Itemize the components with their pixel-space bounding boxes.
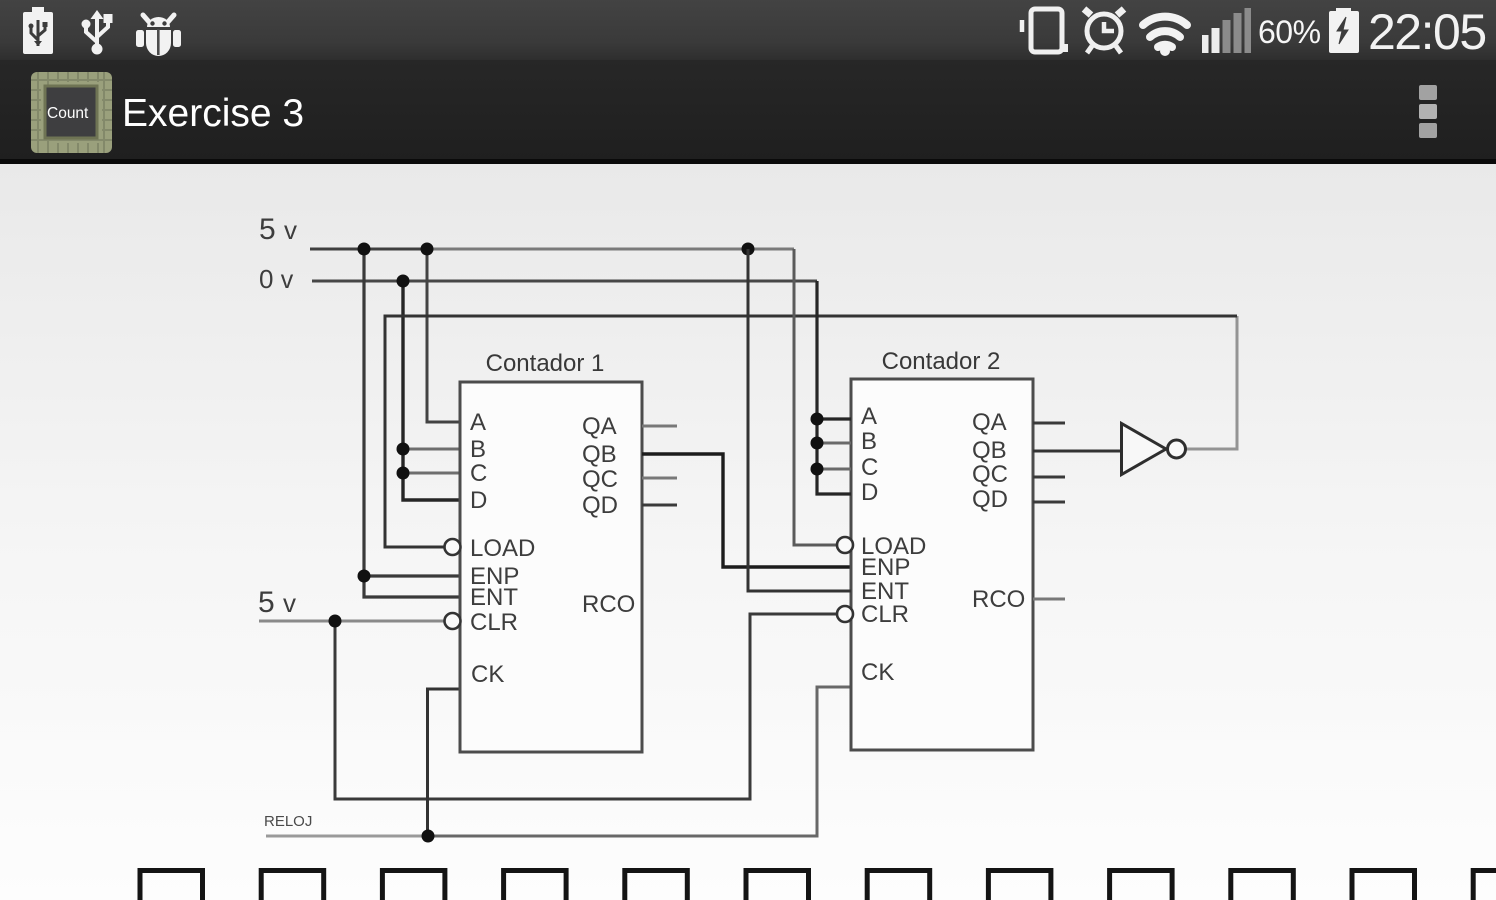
junction on 5V at A1 vertical (421, 243, 434, 256)
junction B1 (397, 443, 410, 456)
wifi status icon (1143, 17, 1187, 56)
QC2 stub (1033, 476, 1065, 479)
app launcher icon (chip) (31, 72, 112, 153)
counter U1 box (460, 382, 642, 752)
svg-text:CLR: CLR (861, 601, 909, 628)
wire CK1 to clock (428, 689, 461, 836)
wire 5V to A1 (427, 249, 460, 422)
wire 0V to C1 (403, 472, 460, 475)
svg-text:ENT: ENT (470, 584, 518, 611)
inverter U3 bubble (1168, 440, 1186, 458)
svg-text:QC: QC (972, 461, 1008, 488)
junction A2 (811, 413, 824, 426)
svg-text:D: D (861, 479, 878, 506)
inverter U3 triangle (1122, 424, 1167, 475)
overflow menu icon (1419, 85, 1437, 138)
svg-text:RCO: RCO (582, 591, 635, 618)
svg-text:0 v: 0 v (259, 264, 294, 294)
wire 0V to A2 D2 (817, 281, 851, 494)
QD2 stub (1033, 501, 1065, 504)
QA1 stub (642, 425, 677, 428)
junction C1 (397, 467, 410, 480)
wire CLR1 net to CLR2 (335, 614, 837, 799)
svg-text:5 v: 5 v (259, 213, 297, 246)
feedback wire top horizontal to LOAD1 (385, 316, 1237, 547)
junction on 5V at ENT2 vertical (742, 243, 755, 256)
feedback wire inverter output to top rail (1186, 316, 1237, 449)
svg-text:RCO: RCO (972, 586, 1025, 613)
junction on 5V at ENP1 vertical (358, 243, 371, 256)
svg-text:QB: QB (972, 437, 1007, 464)
svg-text:C: C (861, 454, 878, 481)
counter U2 box (851, 379, 1033, 750)
junction on 0V at D1 vertical (397, 275, 410, 288)
svg-text:QD: QD (972, 486, 1008, 513)
svg-text:LOAD: LOAD (470, 535, 535, 562)
svg-text:Contador 2: Contador 2 (882, 348, 1001, 375)
signal bars status icon (1202, 8, 1251, 53)
svg-text:CLR: CLR (470, 609, 518, 636)
U1 LOAD bubble (445, 539, 461, 555)
battery charging (USB) status icon (23, 7, 53, 54)
wire 0V down to D1 (403, 281, 460, 500)
wire 5V to ENP1 and ENT1 (364, 249, 460, 597)
wire 5V to LOAD2 (794, 249, 837, 545)
QD1 stub (642, 504, 677, 507)
wire QB2 to inverter input (1033, 450, 1120, 453)
svg-text:QB: QB (582, 441, 617, 468)
RCO2 stub (1033, 598, 1065, 601)
junction B2 (811, 437, 824, 450)
wire 5V source to CLR1 (259, 620, 444, 623)
svg-text:B: B (470, 436, 486, 463)
svg-text:CK: CK (471, 661, 504, 688)
svg-text:QA: QA (972, 409, 1007, 436)
svg-text:5 v: 5 v (258, 586, 296, 619)
wire 0V to B1 (403, 448, 460, 451)
alarm clock status icon (1084, 9, 1124, 53)
wire QB1 to ENP2 (642, 454, 851, 567)
stub B2 (817, 442, 851, 445)
svg-text:C: C (470, 460, 487, 487)
svg-text:QD: QD (582, 492, 618, 519)
junction C2 (811, 463, 824, 476)
QA2 stub (1033, 422, 1065, 425)
svg-text:QA: QA (582, 413, 617, 440)
stub C2 (817, 468, 851, 471)
svg-text:Contador 1: Contador 1 (486, 350, 605, 377)
junction RELOJ CK1 (422, 830, 435, 843)
svg-text:A: A (470, 409, 486, 436)
svg-text:RELOJ: RELOJ (264, 813, 312, 830)
net 0V rail (312, 280, 817, 283)
wire 5V to ENT2 (748, 249, 851, 591)
net RELOJ clock line right to CK2 (428, 687, 851, 836)
android debug bug status icon (136, 15, 181, 56)
svg-text:QC: QC (582, 466, 618, 493)
USB debug status icon (82, 10, 113, 55)
net RELOJ clock line left (266, 835, 428, 838)
svg-text:CK: CK (861, 659, 894, 686)
svg-text:B: B (861, 428, 877, 455)
U2 CLR bubble (837, 606, 853, 622)
battery level status icon (1329, 8, 1359, 53)
QC1 stub (642, 477, 677, 480)
net 5V rail (310, 248, 430, 251)
U1 CLR bubble (445, 613, 461, 629)
svg-text:D: D (470, 487, 487, 514)
svg-text:A: A (861, 403, 877, 430)
junction ENP1 (358, 570, 371, 583)
vibrate status icon (1022, 9, 1068, 52)
U2 LOAD bubble (837, 537, 853, 553)
clock waveform pulses (140, 871, 1496, 900)
junction CLR net (329, 615, 342, 628)
svg-text:ENP: ENP (861, 554, 910, 581)
